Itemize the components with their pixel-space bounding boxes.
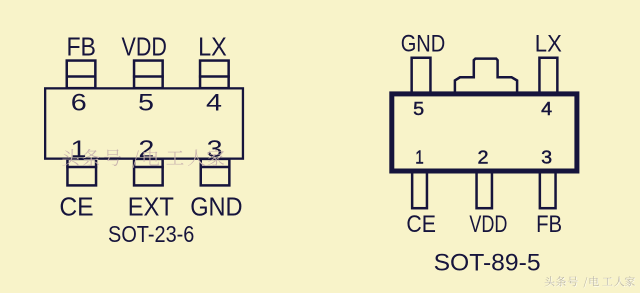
pin 1 bottom lead CE (412, 172, 427, 208)
svg-text:GND: GND (401, 31, 446, 58)
pin 1 lead crossbar (66, 166, 97, 168)
pin 4 lead crossbar (199, 75, 230, 77)
pin 4 top lead (200, 61, 229, 89)
pin 3 bottom lead (201, 159, 230, 186)
svg-text:1: 1 (415, 148, 424, 168)
pin 1 bottom lead (67, 159, 96, 186)
svg-text:4: 4 (541, 99, 552, 119)
svg-text:VDD: VDD (122, 34, 167, 62)
svg-text:CE: CE (406, 211, 436, 238)
pin 4 top lead LX (539, 58, 557, 93)
IC body SOT-89-5 U2 (392, 94, 577, 171)
svg-text:2: 2 (138, 136, 154, 163)
svg-text:LX: LX (198, 34, 227, 62)
pin 3 lead crossbar (200, 166, 231, 168)
svg-text:5: 5 (413, 99, 424, 119)
pin 2 bottom lead (134, 159, 163, 186)
watermark bottom right (545, 277, 635, 288)
pin 2 bottom lead VDD (477, 172, 492, 208)
svg-text:SOT-89-5: SOT-89-5 (434, 249, 541, 276)
svg-text:FB: FB (66, 34, 96, 62)
svg-text:VDD: VDD (469, 211, 507, 238)
pin 3 bottom lead FB (540, 172, 556, 208)
svg-text:3: 3 (541, 148, 552, 168)
pin 2 lead crossbar (133, 166, 164, 168)
svg-text:EXT: EXT (128, 194, 174, 222)
heatsink tab (455, 59, 517, 94)
watermark headline left (62, 149, 224, 168)
IC body SOT-23-6 U1 (45, 88, 243, 158)
svg-text:LX: LX (535, 31, 562, 58)
pin 5 lead crossbar (133, 75, 164, 77)
svg-text:GND: GND (190, 194, 242, 222)
svg-text:SOT-23-6: SOT-23-6 (108, 221, 194, 247)
pin 5 top lead (134, 61, 163, 89)
svg-text:CE: CE (59, 194, 93, 222)
svg-text:FB: FB (536, 211, 562, 238)
pin 6 top lead (67, 61, 96, 89)
svg-text:4: 4 (206, 90, 222, 117)
svg-text:6: 6 (71, 90, 87, 117)
svg-text:2: 2 (478, 148, 489, 168)
pin 6 lead crossbar (66, 75, 97, 77)
svg-text:5: 5 (138, 90, 154, 117)
pin 5 top lead GND (412, 58, 431, 93)
